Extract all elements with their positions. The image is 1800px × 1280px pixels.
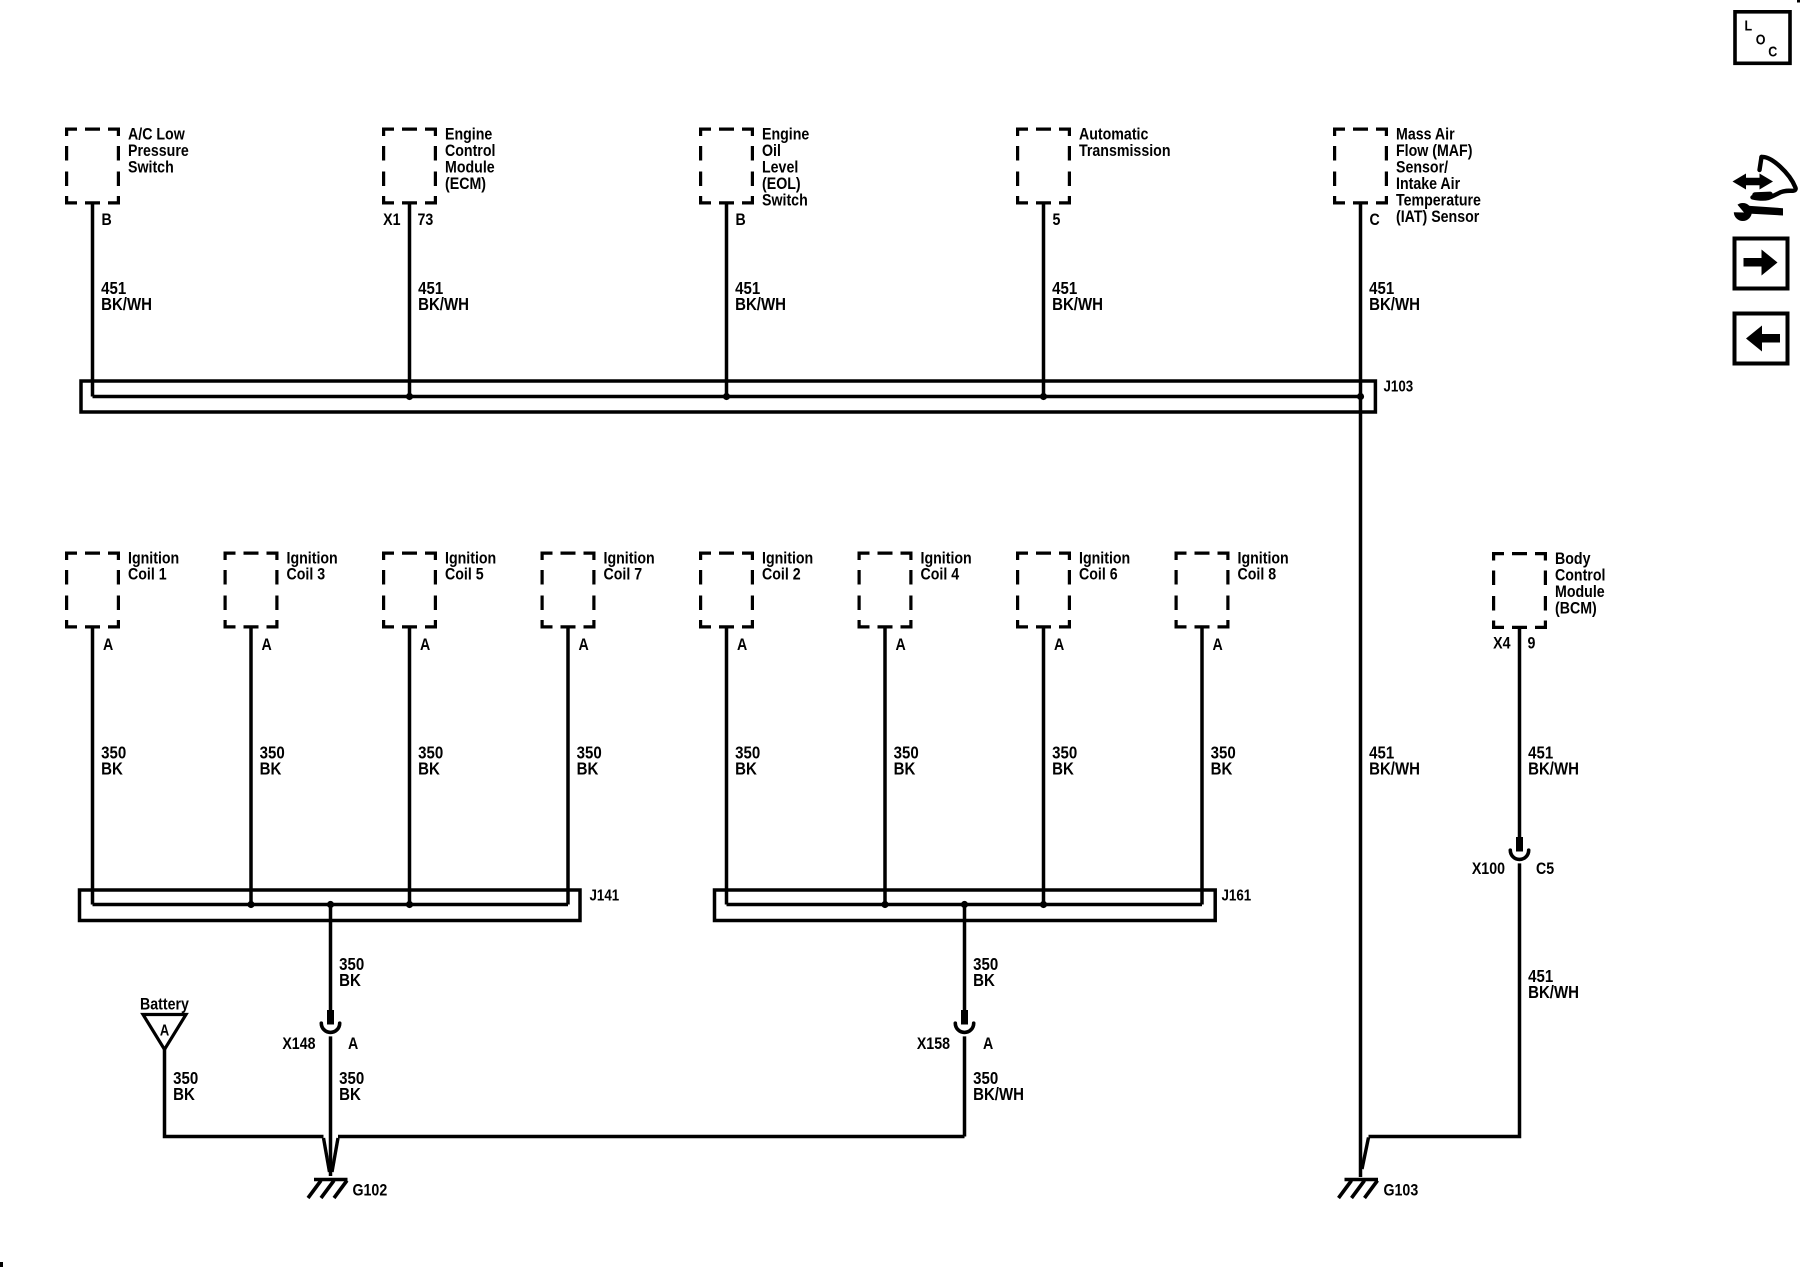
svg-text:A: A xyxy=(1213,636,1223,654)
svg-text:J141: J141 xyxy=(590,887,620,904)
svg-text:Battery: Battery xyxy=(140,995,189,1013)
svg-text:5: 5 xyxy=(1053,211,1061,229)
svg-text:A: A xyxy=(983,1035,993,1053)
svg-text:BK/WH: BK/WH xyxy=(1528,982,1579,1003)
svg-text:BK/WH: BK/WH xyxy=(101,294,152,315)
svg-text:A: A xyxy=(160,1022,169,1039)
svg-text:B: B xyxy=(736,211,746,229)
svg-text:BK: BK xyxy=(735,758,757,779)
svg-text:Switch: Switch xyxy=(762,192,808,210)
svg-text:C: C xyxy=(1768,42,1777,59)
svg-text:A: A xyxy=(420,636,430,654)
svg-text:A: A xyxy=(103,636,113,654)
svg-text:BK/WH: BK/WH xyxy=(418,294,469,315)
svg-text:Coil 7: Coil 7 xyxy=(604,566,643,584)
svg-text:BK: BK xyxy=(577,758,599,779)
svg-text:BK: BK xyxy=(1211,758,1233,779)
svg-text:(BCM): (BCM) xyxy=(1555,600,1597,618)
svg-text:Coil 5: Coil 5 xyxy=(445,566,484,584)
svg-text:X100: X100 xyxy=(1472,860,1505,878)
svg-text:BK/WH: BK/WH xyxy=(973,1084,1024,1105)
svg-text:Coil 1: Coil 1 xyxy=(128,566,167,584)
svg-text:BK: BK xyxy=(339,1084,361,1105)
svg-text:(ECM): (ECM) xyxy=(445,175,486,193)
svg-text:C: C xyxy=(1370,211,1380,229)
svg-text:J103: J103 xyxy=(1384,378,1414,395)
svg-text:BK/WH: BK/WH xyxy=(1369,294,1420,315)
svg-text:BK: BK xyxy=(173,1084,195,1105)
svg-text:G102: G102 xyxy=(353,1181,388,1199)
svg-text:(IAT) Sensor: (IAT) Sensor xyxy=(1396,208,1479,226)
svg-text:X148: X148 xyxy=(282,1035,315,1053)
svg-text:BK/WH: BK/WH xyxy=(735,294,786,315)
svg-text:Coil 2: Coil 2 xyxy=(762,566,801,584)
svg-text:BK: BK xyxy=(339,970,361,991)
svg-text:BK/WH: BK/WH xyxy=(1369,758,1420,779)
svg-text:BK: BK xyxy=(973,970,995,991)
svg-text:A: A xyxy=(579,636,589,654)
svg-text:BK/WH: BK/WH xyxy=(1052,294,1103,315)
svg-text:Switch: Switch xyxy=(128,159,174,177)
svg-text:G103: G103 xyxy=(1384,1181,1419,1199)
svg-text:Coil 3: Coil 3 xyxy=(287,566,326,584)
svg-text:73: 73 xyxy=(418,211,434,229)
svg-text:X158: X158 xyxy=(917,1035,950,1053)
svg-text:C5: C5 xyxy=(1536,860,1554,878)
svg-text:A: A xyxy=(1054,636,1064,654)
svg-text:Coil 8: Coil 8 xyxy=(1238,566,1277,584)
svg-text:BK: BK xyxy=(260,758,282,779)
svg-text:BK/WH: BK/WH xyxy=(1528,758,1579,779)
svg-text:Coil 4: Coil 4 xyxy=(921,566,960,584)
svg-text:L: L xyxy=(1745,16,1753,33)
svg-text:X1: X1 xyxy=(383,211,401,229)
svg-text:A: A xyxy=(737,636,747,654)
svg-text:J161: J161 xyxy=(1222,887,1252,904)
svg-text:BK: BK xyxy=(1052,758,1074,779)
svg-text:9: 9 xyxy=(1528,634,1536,652)
svg-text:O: O xyxy=(1756,30,1766,47)
svg-text:Transmission: Transmission xyxy=(1079,142,1170,160)
svg-text:A: A xyxy=(262,636,272,654)
svg-text:X4: X4 xyxy=(1493,634,1511,652)
svg-text:Coil 6: Coil 6 xyxy=(1079,566,1118,584)
svg-text:BK: BK xyxy=(101,758,123,779)
svg-text:B: B xyxy=(102,211,112,229)
svg-text:BK: BK xyxy=(894,758,916,779)
svg-text:BK: BK xyxy=(418,758,440,779)
svg-text:A: A xyxy=(896,636,906,654)
svg-text:A: A xyxy=(348,1035,358,1053)
